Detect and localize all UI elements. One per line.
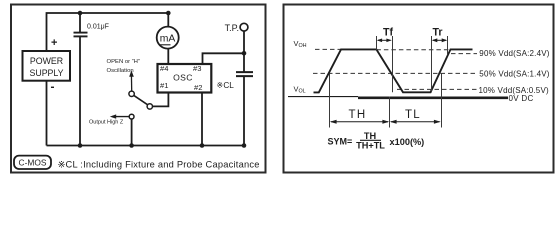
svg-text:TH+TL: TH+TL bbox=[356, 141, 385, 151]
TH-TL middle tick bbox=[389, 97, 391, 128]
left panel frame bbox=[11, 5, 266, 173]
junction dot: switch / bottom rail bbox=[129, 143, 134, 148]
svg-text:0V DC: 0V DC bbox=[509, 94, 534, 103]
junction dot: top rail / C1 bbox=[78, 11, 83, 16]
TL dimension arrow bbox=[390, 120, 441, 124]
arrow: output high-z bbox=[110, 114, 129, 118]
label: OPEN or H Oscillation bbox=[107, 59, 140, 74]
wire: TP down to node bbox=[243, 31, 245, 53]
svg-text:-: - bbox=[51, 80, 55, 94]
VOH dashed level (left segment) bbox=[315, 48, 341, 50]
svg-text:+: + bbox=[51, 37, 57, 49]
IC U1 OSC bbox=[158, 64, 212, 93]
svg-text:#2: #2 bbox=[194, 83, 202, 92]
Tf witness tick right bbox=[392, 36, 394, 92]
50% dashed level bbox=[313, 72, 477, 74]
Tf witness tick left bbox=[376, 36, 378, 50]
0V DC line (thin left part) bbox=[288, 96, 358, 98]
TH dimension arrow bbox=[330, 120, 389, 124]
right panel frame bbox=[284, 5, 554, 173]
junction dot: TP node bbox=[242, 51, 247, 56]
10% dashed level bbox=[397, 88, 477, 90]
wire: switch lower contact to bottom rail bbox=[131, 119, 133, 146]
arrow: switch to oscillation position bbox=[129, 70, 134, 91]
svg-text:POWER: POWER bbox=[30, 56, 63, 66]
wire: CL bottom to bottom rail bbox=[243, 76, 245, 145]
capacitor C1 0.01uF bbox=[74, 13, 109, 36]
TH left tick bbox=[329, 73, 331, 127]
svg-text:x100(%): x100(%) bbox=[390, 137, 425, 147]
svg-text:OPEN or “H”: OPEN or “H” bbox=[107, 59, 140, 65]
ammeter M1 mA bbox=[157, 27, 179, 49]
wire: switch throw to OSC pin1 bbox=[153, 93, 169, 107]
svg-text:0.01μF: 0.01μF bbox=[87, 24, 109, 31]
wire: ammeter to OSC pin4 bbox=[167, 49, 169, 64]
junction dot: pin2 / bottom rail bbox=[200, 143, 205, 148]
wire: node down to CL bbox=[243, 53, 245, 71]
waveform bbox=[314, 49, 473, 92]
svg-text:Tr: Tr bbox=[432, 27, 442, 39]
wire: bottom rail bbox=[47, 145, 245, 147]
VOH dashed bridge across valley bbox=[376, 49, 450, 51]
svg-text:SYM=: SYM= bbox=[328, 137, 353, 147]
svg-text:VOL: VOL bbox=[294, 85, 306, 95]
wire: PS top to top rail bbox=[47, 13, 169, 51]
Tr witness tick right bbox=[447, 36, 449, 54]
0V DC line (thick part) bbox=[358, 97, 508, 100]
svg-text:#1: #1 bbox=[160, 81, 168, 90]
junction dot: C1 / bottom rail bbox=[78, 143, 83, 148]
svg-text:※CL: ※CL bbox=[217, 81, 235, 90]
switch SW1 bbox=[129, 91, 153, 119]
svg-text:TL: TL bbox=[405, 109, 421, 121]
svg-text:OSC: OSC bbox=[173, 73, 193, 83]
svg-text:T.P.: T.P. bbox=[225, 23, 239, 33]
svg-text:※CL :Including Fixture and Pro: ※CL :Including Fixture and Probe Capacit… bbox=[58, 159, 260, 169]
svg-text:90% Vdd(SA:2.4V): 90% Vdd(SA:2.4V) bbox=[479, 49, 549, 58]
Tr witness tick left bbox=[431, 36, 433, 92]
svg-text:TH: TH bbox=[349, 109, 367, 121]
90% dashed level bbox=[451, 53, 477, 55]
wire: PS bottom to bottom rail bbox=[46, 81, 48, 146]
svg-text:VOH: VOH bbox=[294, 39, 307, 49]
wire: OSC pin3 up and right to TP node bbox=[203, 53, 245, 64]
capacitor CL bbox=[217, 72, 254, 90]
wire: top rail corner down to ammeter bbox=[167, 13, 169, 26]
svg-text:mA: mA bbox=[160, 34, 176, 45]
wire: OSC pin2 to bottom rail bbox=[201, 93, 203, 146]
svg-text:Oscillation: Oscillation bbox=[107, 68, 134, 74]
svg-text:#4: #4 bbox=[160, 64, 168, 73]
svg-text:Output High Z: Output High Z bbox=[89, 119, 124, 125]
C-MOS label box bbox=[14, 156, 51, 169]
svg-text:SUPPLY: SUPPLY bbox=[29, 68, 63, 78]
test point TP bbox=[225, 23, 248, 33]
junction dot: CL / bottom rail bbox=[242, 143, 247, 148]
junction dot: top rail right corner bbox=[166, 11, 171, 16]
Tr arrow bbox=[432, 38, 448, 42]
svg-text:#3: #3 bbox=[193, 64, 201, 73]
formula SYM= TH/(TH+TL) x100(%) bbox=[328, 131, 425, 151]
svg-text:Tf: Tf bbox=[383, 27, 393, 39]
wire: C1 bottom to bottom rail bbox=[79, 36, 81, 145]
power supply PS1 bbox=[23, 51, 71, 81]
svg-text:C-MOS: C-MOS bbox=[19, 157, 47, 167]
TL right tick bbox=[441, 73, 443, 127]
Tf arrow bbox=[377, 39, 392, 43]
svg-text:50% Vdd(SA:1.4V): 50% Vdd(SA:1.4V) bbox=[479, 69, 549, 78]
svg-text:TH: TH bbox=[364, 131, 377, 141]
